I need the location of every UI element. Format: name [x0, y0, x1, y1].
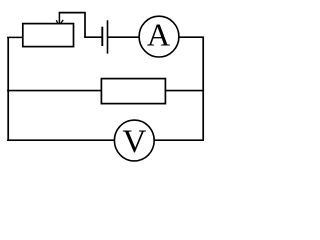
wire middle right segment — [165, 90, 204, 92]
wire bottom right segment — [154, 139, 204, 141]
svg-text:A: A — [147, 17, 171, 53]
wire arrow shaft — [58, 13, 60, 24]
ammeter circle — [139, 16, 179, 57]
wire top: leg to battery minus plate — [84, 36, 102, 38]
wire left vertical — [7, 37, 9, 141]
resistor R2 body — [101, 79, 165, 104]
battery cell short plate (negative) — [101, 27, 103, 46]
rheostat R1 body — [23, 24, 74, 47]
wire slider horizontal and down-leg to battery row — [59, 13, 85, 38]
wire top: ammeter to top-right corner — [179, 36, 204, 38]
voltmeter circle — [114, 120, 154, 161]
wire right vertical — [202, 37, 204, 140]
wire bottom left segment — [7, 139, 115, 141]
wire rheostat stub — [7, 36, 23, 38]
wire top: battery plus plate to ammeter — [108, 36, 140, 38]
arrowhead slider tip — [56, 20, 63, 24]
battery cell long plate (positive) — [107, 20, 109, 53]
wire middle left segment — [7, 90, 101, 92]
svg-text:V: V — [122, 123, 146, 160]
